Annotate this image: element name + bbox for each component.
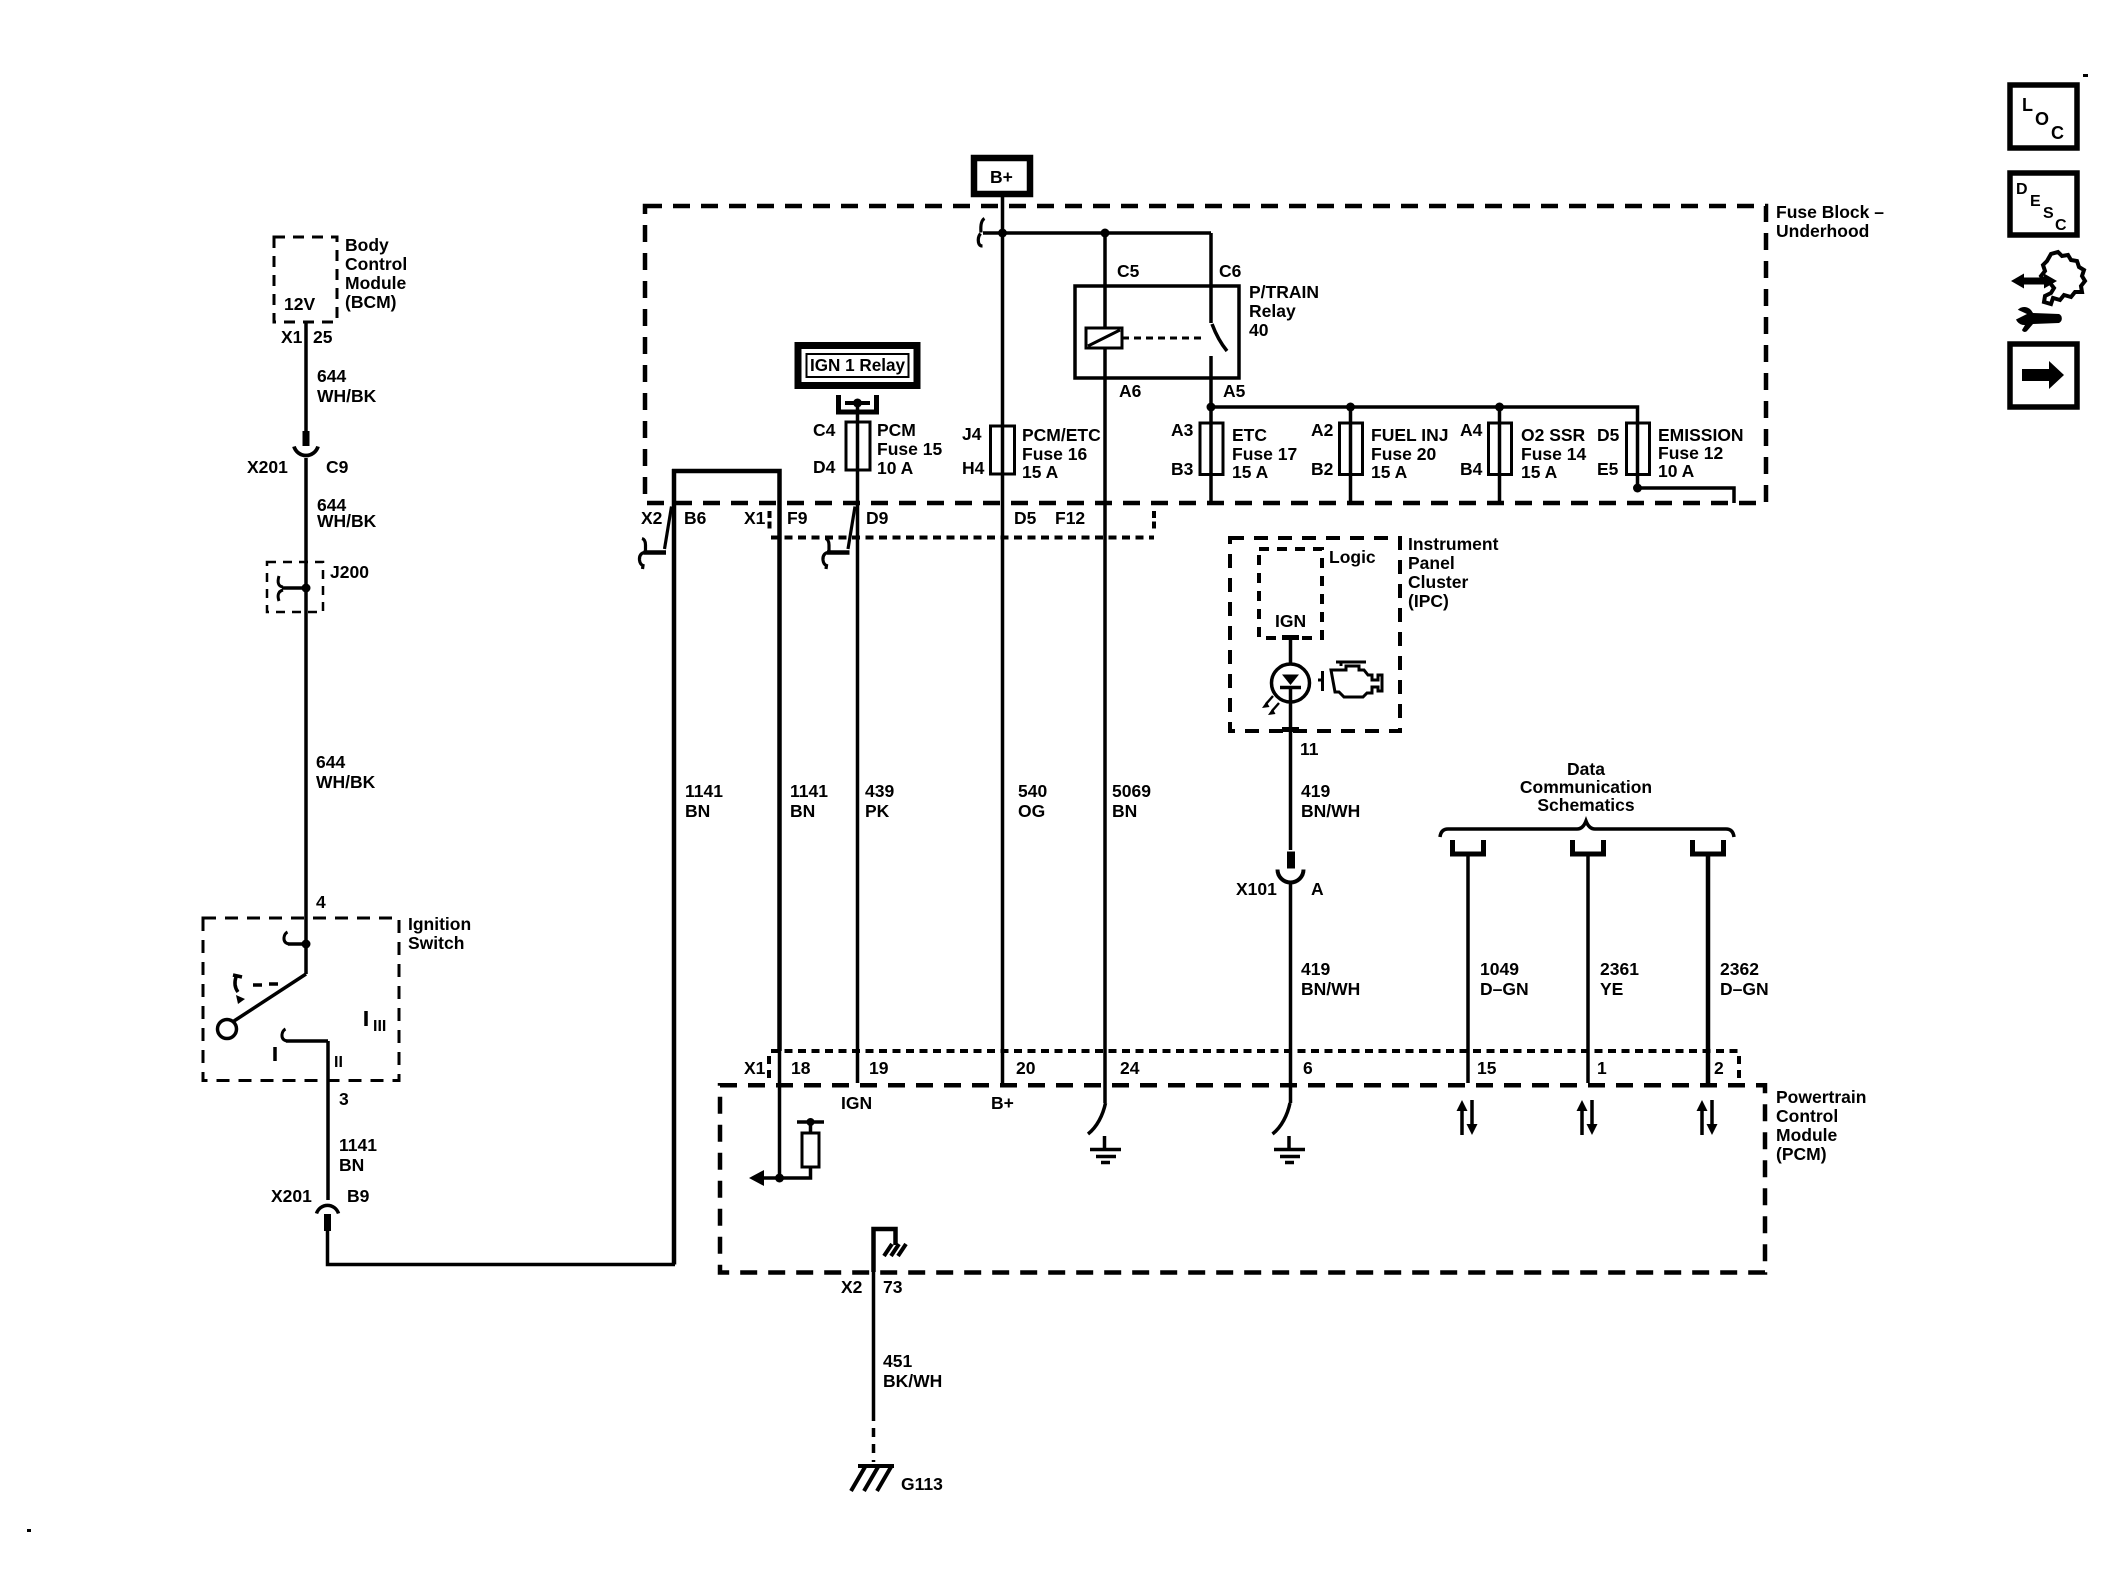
svg-text:X1: X1 (744, 508, 766, 528)
svg-text:B2: B2 (1311, 459, 1334, 479)
svg-text:ETC: ETC (1232, 425, 1267, 445)
svg-text:S: S (2043, 205, 2054, 222)
svg-text:15: 15 (1477, 1058, 1497, 1078)
svg-text:IGN: IGN (841, 1093, 872, 1113)
svg-text:A: A (1311, 879, 1324, 899)
svg-text:PK: PK (865, 801, 890, 821)
svg-text:WH/BK: WH/BK (317, 511, 377, 531)
svg-text:10 A: 10 A (1658, 461, 1695, 481)
svg-text:2: 2 (1714, 1058, 1724, 1078)
svg-text:1141: 1141 (339, 1135, 377, 1155)
svg-text:419: 419 (1301, 959, 1330, 979)
svg-text:E5: E5 (1597, 459, 1619, 479)
svg-text:IGN 1 Relay: IGN 1 Relay (810, 355, 905, 375)
svg-text:(PCM): (PCM) (1776, 1144, 1827, 1164)
svg-text:Panel: Panel (1408, 553, 1455, 573)
svg-text:D–GN: D–GN (1720, 979, 1769, 999)
svg-text:X2: X2 (641, 508, 663, 528)
svg-text:BN: BN (1112, 801, 1137, 821)
svg-text:Cluster: Cluster (1408, 572, 1468, 592)
svg-text:Schematics: Schematics (1537, 795, 1635, 815)
svg-text:Module: Module (1776, 1125, 1838, 1145)
svg-text:X201: X201 (247, 457, 288, 477)
svg-text:BK/WH: BK/WH (883, 1371, 942, 1391)
svg-text:B9: B9 (347, 1186, 370, 1206)
svg-text:B4: B4 (1460, 459, 1483, 479)
svg-text:O2 SSR: O2 SSR (1521, 425, 1586, 445)
svg-text:C: C (2051, 123, 2064, 143)
svg-text:5069: 5069 (1112, 781, 1151, 801)
svg-text:419: 419 (1301, 781, 1330, 801)
svg-text:2361: 2361 (1600, 959, 1639, 979)
svg-text:15 A: 15 A (1521, 462, 1558, 482)
svg-text:H4: H4 (962, 458, 985, 478)
svg-text:Powertrain: Powertrain (1776, 1087, 1866, 1107)
svg-text:L: L (2022, 95, 2033, 115)
svg-text:Fuse 12: Fuse 12 (1658, 443, 1723, 463)
svg-text:A4: A4 (1460, 420, 1483, 440)
svg-text:III: III (373, 1018, 386, 1035)
svg-text:644: 644 (316, 752, 345, 772)
svg-text:BN: BN (685, 801, 710, 821)
svg-text:II: II (334, 1054, 343, 1071)
svg-text:(BCM): (BCM) (345, 292, 397, 312)
svg-text:15 A: 15 A (1371, 462, 1408, 482)
svg-text:439: 439 (865, 781, 894, 801)
svg-text:1141: 1141 (685, 781, 723, 801)
svg-text:J4: J4 (962, 424, 982, 444)
svg-text:F9: F9 (787, 508, 808, 528)
svg-text:4: 4 (316, 892, 326, 912)
svg-text:X1: X1 (744, 1058, 766, 1078)
svg-text:12V: 12V (284, 294, 315, 314)
svg-text:BN: BN (339, 1155, 364, 1175)
svg-text:Fuse 17: Fuse 17 (1232, 444, 1297, 464)
svg-text:X201: X201 (271, 1186, 312, 1206)
svg-text:644: 644 (317, 366, 346, 386)
svg-text:Control: Control (1776, 1106, 1838, 1126)
svg-text:P/TRAIN: P/TRAIN (1249, 282, 1319, 302)
svg-text:Fuse 20: Fuse 20 (1371, 444, 1436, 464)
svg-text:Relay: Relay (1249, 301, 1296, 321)
svg-text:540: 540 (1018, 781, 1047, 801)
svg-text:D9: D9 (866, 508, 889, 528)
svg-text:Fuse 15: Fuse 15 (877, 439, 942, 459)
svg-text:451: 451 (883, 1351, 912, 1371)
svg-text:6: 6 (1303, 1058, 1313, 1078)
svg-text:G113: G113 (901, 1474, 943, 1494)
svg-text:F12: F12 (1055, 508, 1085, 528)
svg-text:15 A: 15 A (1022, 462, 1059, 482)
svg-text:D–GN: D–GN (1480, 979, 1529, 999)
svg-text:Underhood: Underhood (1776, 221, 1869, 241)
svg-text:D: D (2016, 181, 2028, 198)
svg-text:11: 11 (1300, 739, 1319, 759)
svg-text:Control: Control (345, 254, 407, 274)
svg-text:A2: A2 (1311, 420, 1334, 440)
svg-text:WH/BK: WH/BK (316, 772, 376, 792)
svg-text:BN: BN (790, 801, 815, 821)
svg-text:FUEL INJ: FUEL INJ (1371, 425, 1448, 445)
svg-text:15 A: 15 A (1232, 462, 1269, 482)
svg-text:1: 1 (1597, 1058, 1607, 1078)
svg-text:C5: C5 (1117, 261, 1140, 281)
svg-text:73: 73 (883, 1277, 903, 1297)
svg-text:24: 24 (1120, 1058, 1140, 1078)
svg-text:Logic: Logic (1329, 547, 1376, 567)
svg-text:Fuse Block –: Fuse Block – (1776, 202, 1884, 222)
svg-text:(IPC): (IPC) (1408, 591, 1449, 611)
svg-text:X2: X2 (841, 1277, 863, 1297)
svg-text:Data: Data (1567, 759, 1605, 779)
svg-text:E: E (2030, 193, 2041, 210)
svg-text:18: 18 (791, 1058, 811, 1078)
svg-text:D5: D5 (1597, 425, 1620, 445)
svg-text:Communication: Communication (1520, 777, 1652, 797)
svg-text:B6: B6 (684, 508, 707, 528)
svg-text:25: 25 (313, 327, 333, 347)
svg-text:YE: YE (1600, 979, 1623, 999)
svg-text:D5: D5 (1014, 508, 1037, 528)
svg-text:20: 20 (1016, 1058, 1036, 1078)
svg-text:1141: 1141 (790, 781, 828, 801)
svg-text:C9: C9 (326, 457, 349, 477)
svg-text:OG: OG (1018, 801, 1045, 821)
svg-text:A6: A6 (1119, 381, 1142, 401)
svg-text:Switch: Switch (408, 933, 464, 953)
svg-text:1049: 1049 (1480, 959, 1519, 979)
svg-text:2362: 2362 (1720, 959, 1759, 979)
svg-text:10 A: 10 A (877, 458, 914, 478)
svg-text:Fuse 14: Fuse 14 (1521, 444, 1586, 464)
svg-text:BN/WH: BN/WH (1301, 801, 1360, 821)
svg-text:BN/WH: BN/WH (1301, 979, 1360, 999)
svg-text:X1: X1 (281, 327, 303, 347)
svg-text:J200: J200 (330, 562, 369, 582)
svg-text:A5: A5 (1223, 381, 1246, 401)
svg-text:C6: C6 (1219, 261, 1242, 281)
svg-text:C4: C4 (813, 420, 836, 440)
svg-text:IGN: IGN (1275, 611, 1306, 631)
svg-text:Module: Module (345, 273, 407, 293)
svg-text:O: O (2035, 109, 2049, 129)
svg-text:X101: X101 (1236, 879, 1277, 899)
svg-text:Instrument: Instrument (1408, 534, 1499, 554)
svg-text:EMISSION: EMISSION (1658, 425, 1744, 445)
svg-text:3: 3 (339, 1089, 349, 1109)
svg-text:B3: B3 (1171, 459, 1194, 479)
svg-text:Ignition: Ignition (408, 914, 471, 934)
svg-text:WH/BK: WH/BK (317, 386, 377, 406)
svg-text:Fuse 16: Fuse 16 (1022, 444, 1087, 464)
svg-text:A3: A3 (1171, 420, 1194, 440)
svg-text:19: 19 (869, 1058, 889, 1078)
svg-text:PCM/ETC: PCM/ETC (1022, 425, 1101, 445)
svg-text:B+: B+ (990, 167, 1013, 187)
svg-text:B+: B+ (991, 1093, 1014, 1113)
svg-text:C: C (2055, 217, 2067, 234)
svg-text:PCM: PCM (877, 420, 916, 440)
svg-text:Body: Body (345, 235, 389, 255)
svg-text:D4: D4 (813, 457, 836, 477)
svg-text:40: 40 (1249, 320, 1269, 340)
